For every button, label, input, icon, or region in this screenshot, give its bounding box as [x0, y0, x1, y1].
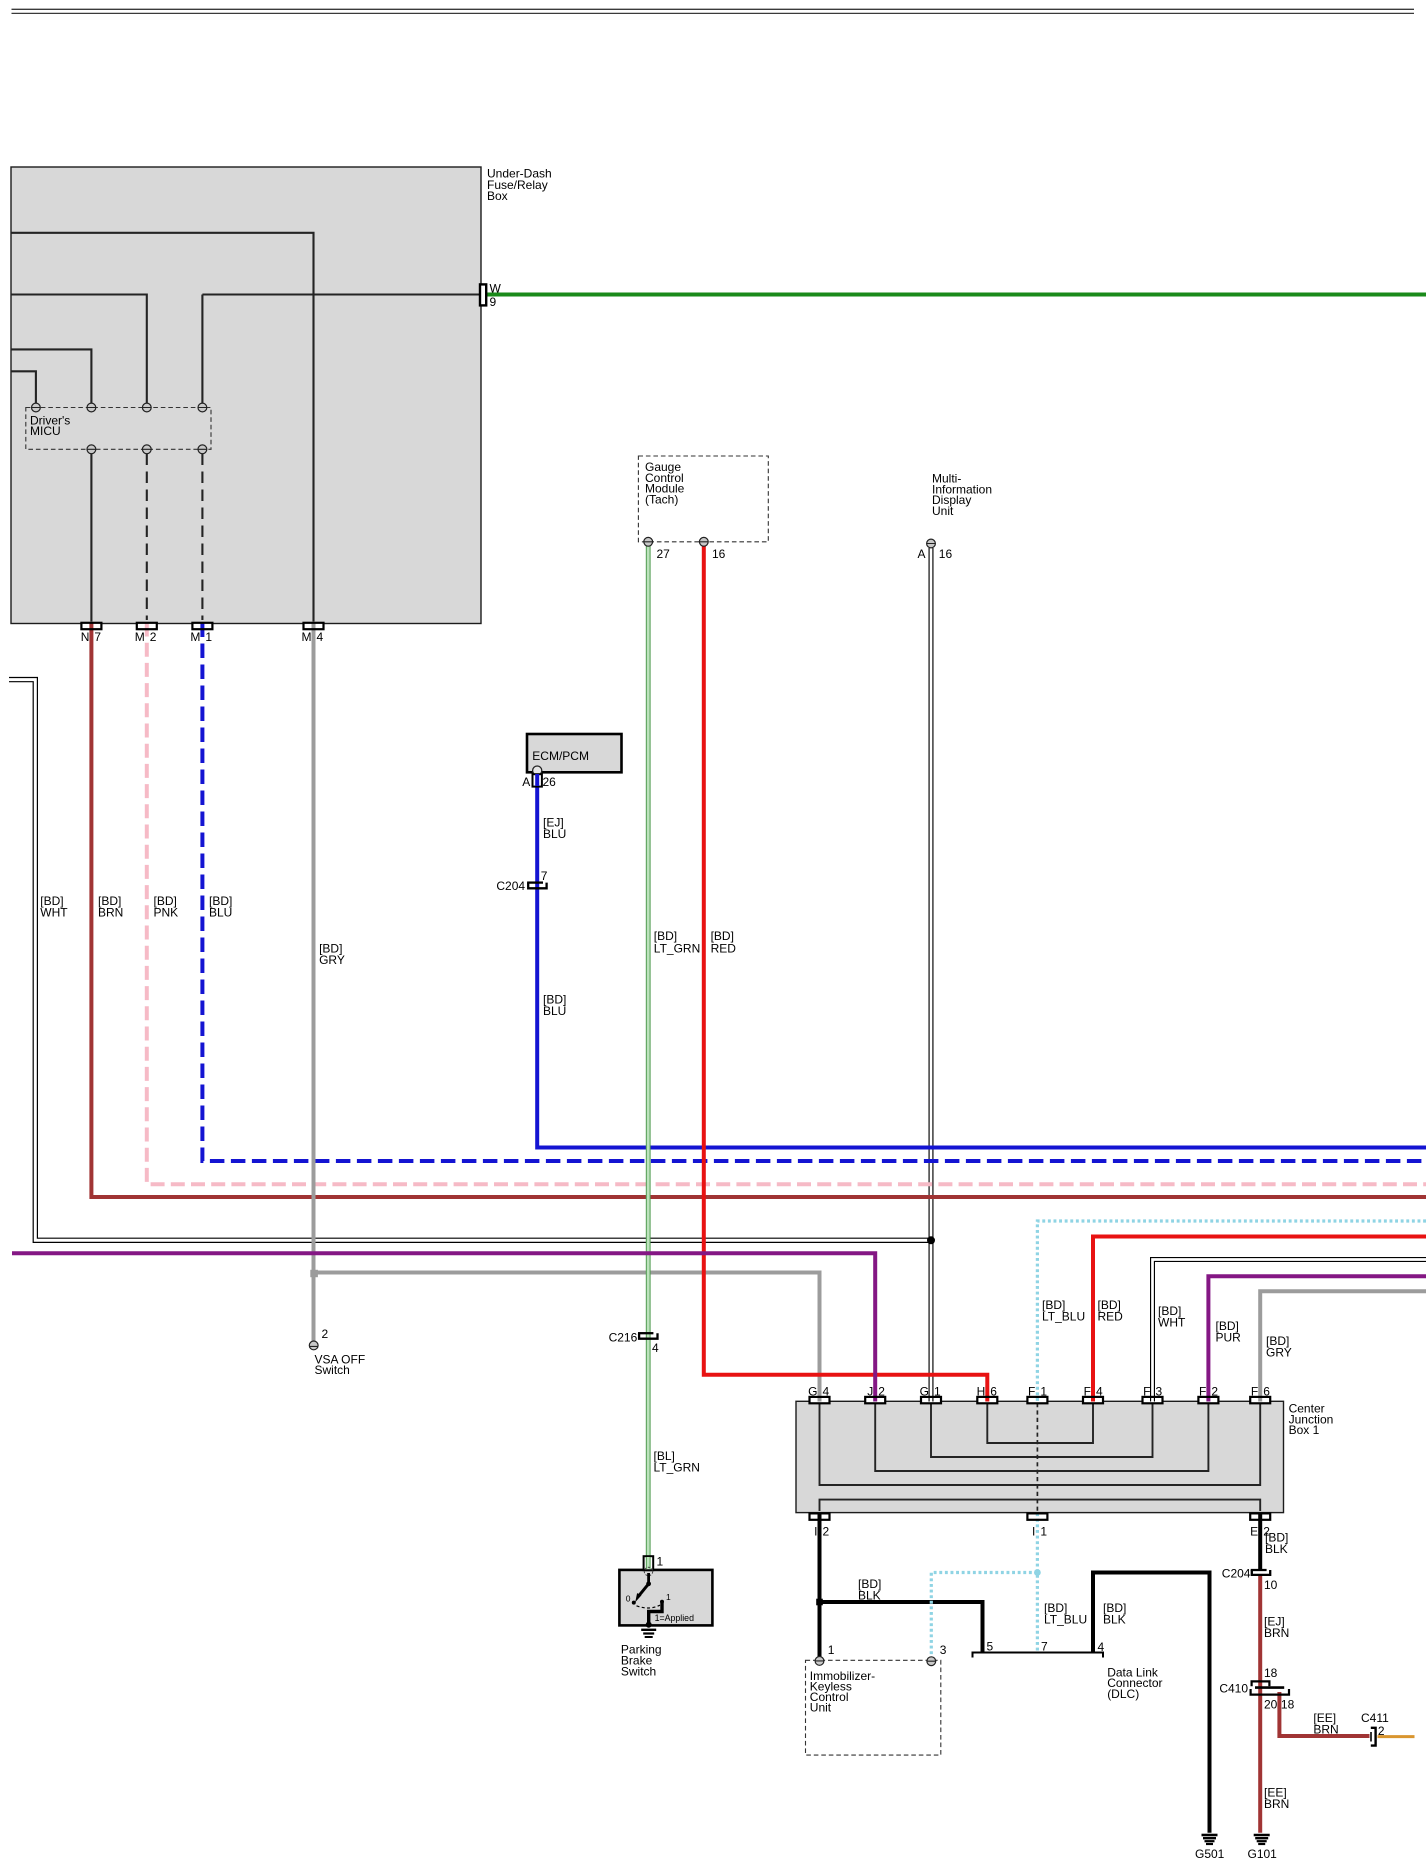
- svg-text:9: 9: [490, 295, 497, 309]
- svg-text:7: 7: [1041, 1640, 1048, 1654]
- svg-text:VSA OFFSwitch: VSA OFFSwitch: [315, 1352, 366, 1377]
- svg-text:4: 4: [1098, 1640, 1105, 1654]
- svg-text:1: 1: [828, 1643, 835, 1657]
- svg-text:F: F: [1028, 1384, 1035, 1398]
- svg-text:G101: G101: [1248, 1847, 1278, 1861]
- svg-text:Data LinkConnector(DLC): Data LinkConnector(DLC): [1107, 1665, 1162, 1701]
- svg-text:[BD]WHT: [BD]WHT: [40, 894, 68, 919]
- svg-text:[BD]BLU: [BD]BLU: [543, 993, 566, 1018]
- svg-text:20: 20: [1264, 1698, 1278, 1712]
- svg-text:J: J: [867, 1384, 873, 1398]
- svg-text:Immobilizer-KeylessControlUnit: Immobilizer-KeylessControlUnit: [810, 1669, 875, 1715]
- svg-text:I: I: [814, 1524, 817, 1538]
- svg-text:M: M: [190, 630, 200, 644]
- svg-text:10: 10: [1264, 1578, 1278, 1592]
- svg-text:W: W: [490, 282, 502, 296]
- svg-text:1: 1: [205, 630, 212, 644]
- svg-text:[BD]LT_BLU: [BD]LT_BLU: [1042, 1298, 1085, 1323]
- svg-text:[BD]PNK: [BD]PNK: [154, 894, 179, 919]
- svg-text:Multi-InformationDisplayUnit: Multi-InformationDisplayUnit: [932, 472, 992, 518]
- svg-text:F: F: [1251, 1384, 1258, 1398]
- svg-text:C204: C204: [1222, 1567, 1251, 1581]
- svg-text:18: 18: [1281, 1698, 1295, 1712]
- svg-text:[BD]GRY: [BD]GRY: [319, 941, 345, 966]
- svg-text:C216: C216: [609, 1331, 638, 1345]
- svg-text:[BD]BRN: [BD]BRN: [98, 894, 123, 919]
- svg-text:26: 26: [543, 775, 557, 789]
- svg-text:A: A: [917, 547, 925, 561]
- svg-text:E: E: [1250, 1524, 1258, 1538]
- svg-text:I: I: [1032, 1524, 1035, 1538]
- svg-text:Under-DashFuse/RelayBox: Under-DashFuse/RelayBox: [487, 167, 552, 204]
- svg-text:2: 2: [322, 1327, 329, 1341]
- svg-text:[EE]BRN: [EE]BRN: [1313, 1711, 1338, 1736]
- svg-text:[EE]BRN: [EE]BRN: [1264, 1786, 1289, 1811]
- svg-text:A: A: [522, 775, 530, 789]
- svg-text:[BD]PUR: [BD]PUR: [1216, 1319, 1242, 1344]
- svg-text:[BD]LT_BLU: [BD]LT_BLU: [1044, 1601, 1087, 1626]
- svg-text:0: 0: [626, 1594, 631, 1604]
- svg-text:CenterJunctionBox 1: CenterJunctionBox 1: [1289, 1402, 1334, 1438]
- svg-text:1: 1: [1040, 1524, 1047, 1538]
- svg-text:1: 1: [657, 1555, 664, 1569]
- svg-text:27: 27: [657, 547, 671, 561]
- svg-text:16: 16: [939, 547, 953, 561]
- svg-text:[BD]RED: [BD]RED: [1098, 1298, 1124, 1323]
- svg-text:C411: C411: [1361, 1711, 1389, 1725]
- svg-text:5: 5: [987, 1640, 994, 1654]
- svg-text:F: F: [1084, 1384, 1091, 1398]
- svg-text:[EJ]BRN: [EJ]BRN: [1264, 1615, 1289, 1640]
- svg-text:2: 2: [878, 1384, 885, 1398]
- svg-text:3: 3: [1156, 1384, 1163, 1398]
- svg-text:2: 2: [1211, 1384, 1218, 1398]
- svg-text:F: F: [1143, 1384, 1150, 1398]
- svg-text:[BD]BLK: [BD]BLK: [1265, 1530, 1288, 1555]
- svg-text:7: 7: [94, 630, 101, 644]
- svg-text:1: 1: [934, 1384, 941, 1398]
- svg-text:[BD]RED: [BD]RED: [711, 929, 737, 955]
- svg-text:M: M: [302, 630, 312, 644]
- svg-text:6: 6: [1263, 1384, 1270, 1398]
- svg-text:GaugeControlModule(Tach): GaugeControlModule(Tach): [645, 460, 685, 506]
- svg-text:C410: C410: [1219, 1682, 1248, 1696]
- svg-text:H: H: [977, 1384, 986, 1398]
- svg-text:[BD]WHT: [BD]WHT: [1158, 1304, 1186, 1329]
- svg-text:[BD]LT_GRN: [BD]LT_GRN: [654, 929, 700, 955]
- svg-text:G501: G501: [1195, 1847, 1225, 1861]
- svg-text:4: 4: [823, 1384, 830, 1398]
- svg-text:7: 7: [541, 869, 548, 883]
- svg-text:C204: C204: [496, 879, 525, 893]
- svg-text:3: 3: [940, 1643, 947, 1657]
- svg-text:G: G: [808, 1384, 817, 1398]
- svg-text:M: M: [135, 630, 145, 644]
- svg-text:ECM/PCM: ECM/PCM: [532, 749, 589, 763]
- svg-text:F: F: [1199, 1384, 1206, 1398]
- svg-text:4: 4: [1096, 1384, 1103, 1398]
- svg-text:1=Applied: 1=Applied: [655, 1613, 694, 1623]
- svg-text:1: 1: [666, 1592, 671, 1602]
- svg-text:4: 4: [652, 1341, 659, 1355]
- svg-text:2: 2: [823, 1524, 830, 1538]
- svg-text:[BD]BLK: [BD]BLK: [858, 1577, 881, 1602]
- svg-text:[EJ]BLU: [EJ]BLU: [543, 816, 566, 841]
- svg-text:[BL]LT_GRN: [BL]LT_GRN: [654, 1449, 700, 1474]
- svg-text:[BD]GRY: [BD]GRY: [1266, 1334, 1292, 1359]
- svg-text:18: 18: [1264, 1666, 1278, 1680]
- svg-text:1: 1: [1040, 1384, 1047, 1398]
- svg-text:N: N: [81, 630, 90, 644]
- svg-text:ParkingBrakeSwitch: ParkingBrakeSwitch: [621, 1643, 662, 1679]
- svg-text:6: 6: [990, 1384, 997, 1398]
- svg-text:2: 2: [1378, 1724, 1385, 1738]
- svg-text:4: 4: [317, 630, 324, 644]
- svg-text:[BD]BLK: [BD]BLK: [1103, 1601, 1126, 1626]
- svg-text:G: G: [920, 1384, 929, 1398]
- svg-text:2: 2: [150, 630, 157, 644]
- svg-text:[BD]BLU: [BD]BLU: [209, 894, 232, 919]
- svg-text:16: 16: [712, 547, 726, 561]
